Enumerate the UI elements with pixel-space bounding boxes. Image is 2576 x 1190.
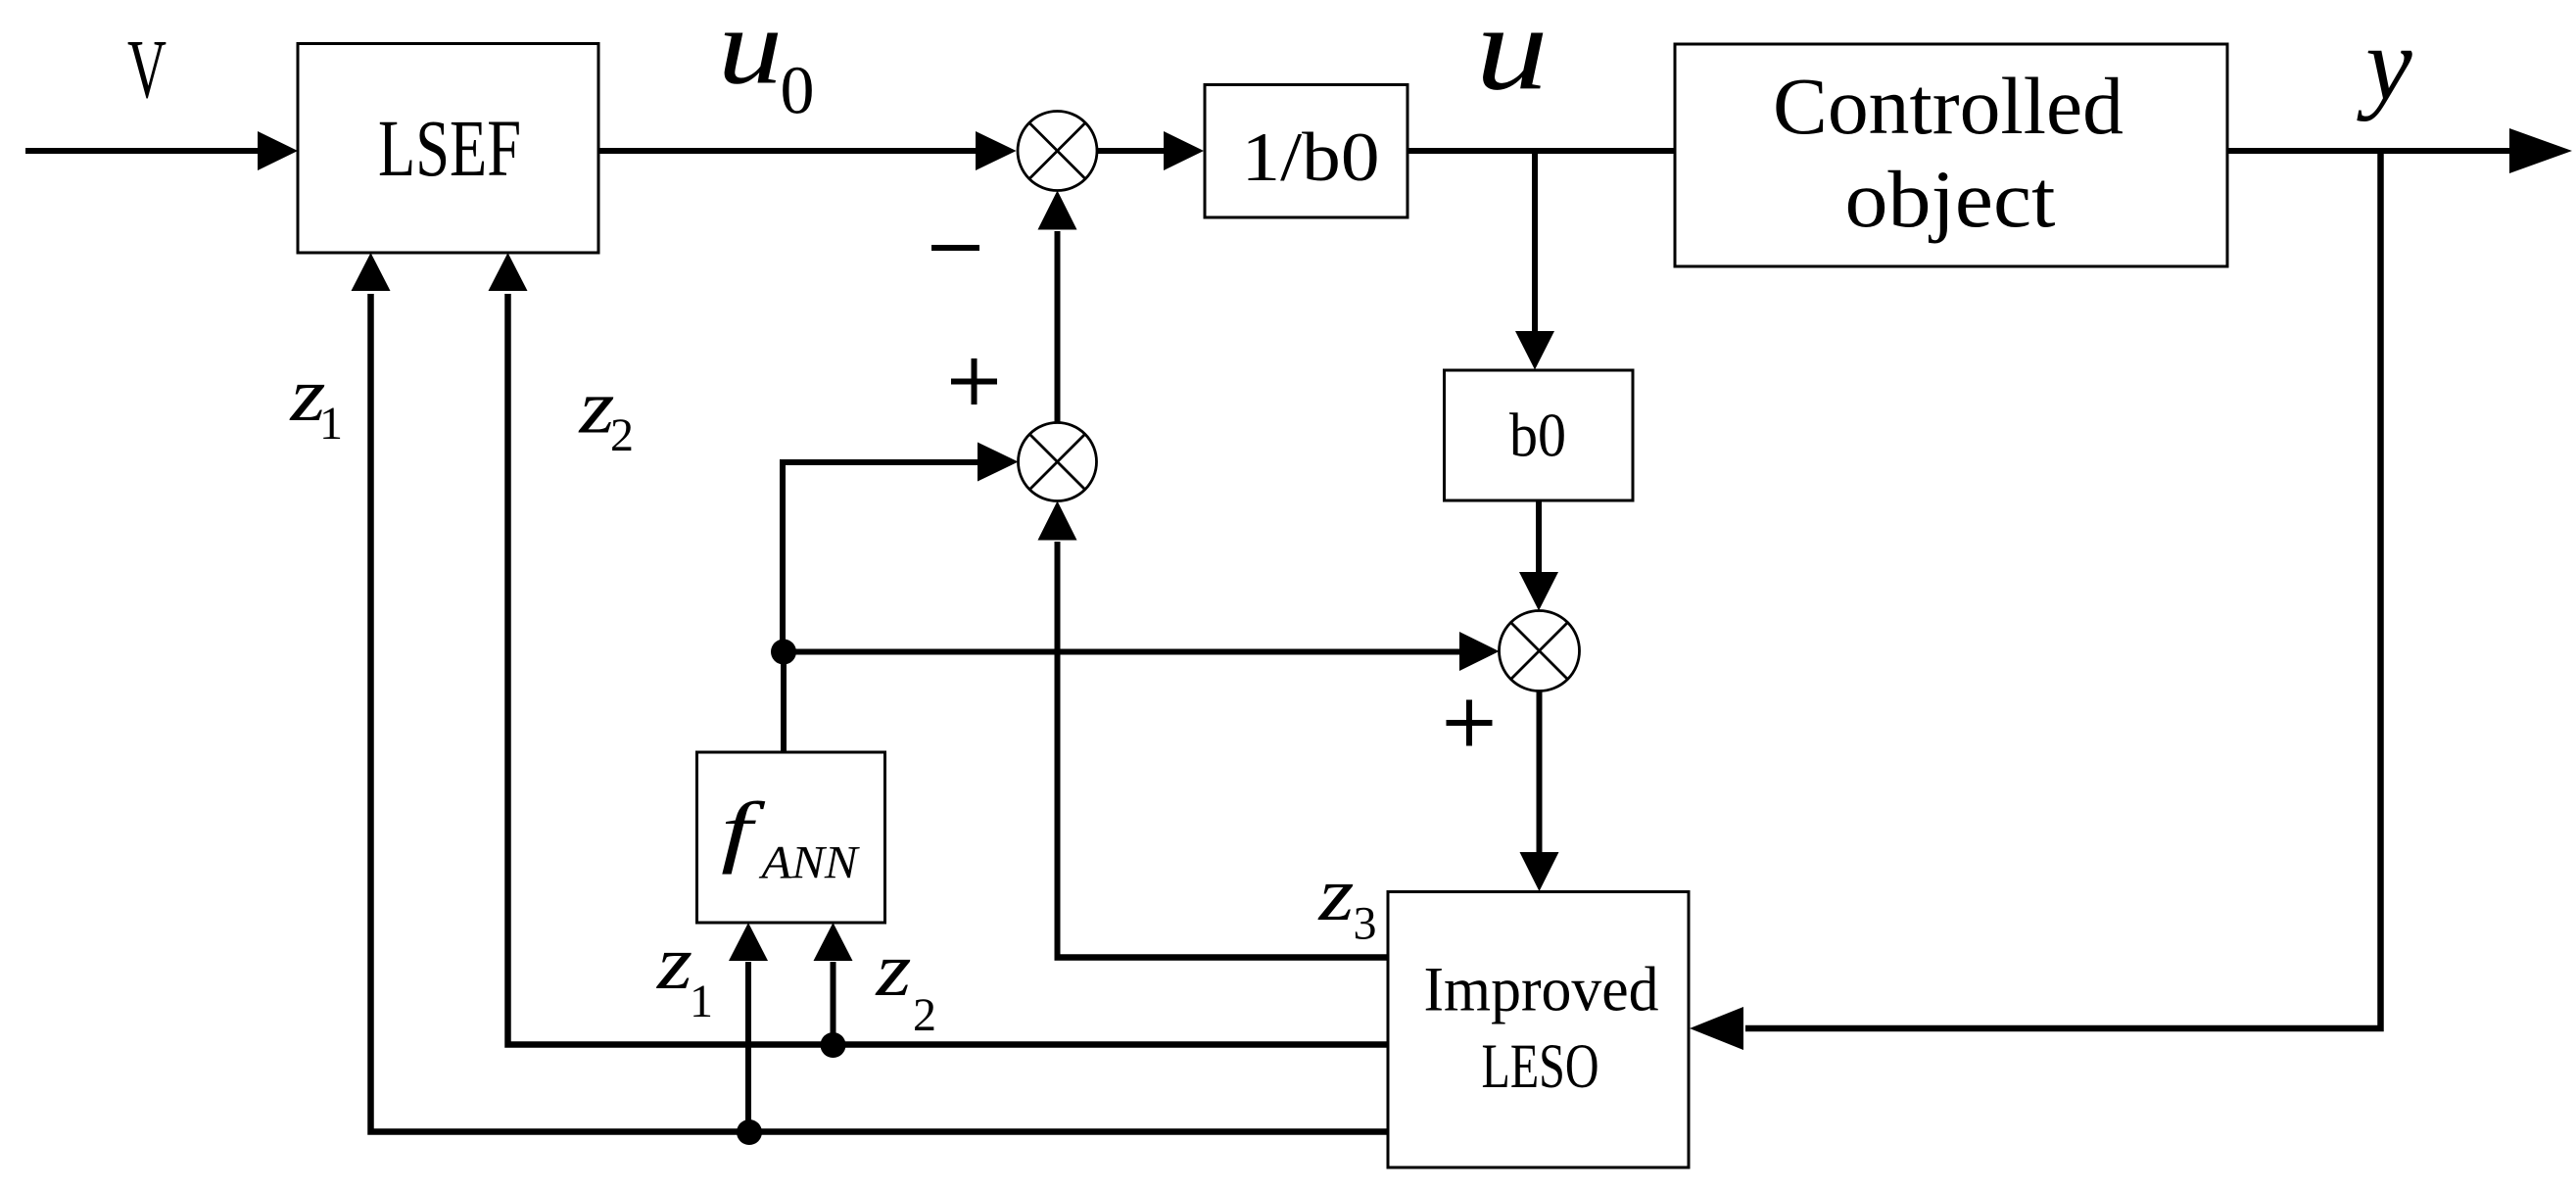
node arrowhead into sum1: [976, 131, 1017, 170]
wire sum2 to sum1: [1055, 231, 1061, 423]
wire fANN node to sum3: [784, 649, 1461, 655]
svg-text:1/b0: 1/b0: [1242, 119, 1380, 196]
node arrowhead into sum3 left: [1459, 632, 1500, 671]
node arrowhead z2 into LSEF bottom: [489, 253, 528, 291]
svg-text:3: 3: [1354, 898, 1377, 950]
wire elbow fANN output to sum2: [783, 462, 979, 654]
svg-text:LESO: LESO: [1482, 1031, 1599, 1102]
node sum2 circle: [1019, 423, 1097, 501]
label plus sign at sum2: [951, 379, 997, 385]
node junction dot z1 line: [737, 1119, 762, 1145]
wire u branch down to b0: [1532, 151, 1538, 333]
wire z3 vertical to sum2: [1055, 542, 1061, 958]
svg-text:z: z: [578, 364, 614, 450]
wire V input: [25, 148, 262, 154]
wire sum1 to 1/b0: [1097, 148, 1166, 154]
wire dot to fANN top: [781, 652, 787, 753]
node sum1 circle: [1018, 112, 1097, 191]
node y output arrowhead: [2509, 128, 2572, 173]
node sum3 circle: [1500, 611, 1580, 691]
node arrowhead into sum1 bottom: [1038, 191, 1077, 230]
label minus sign at sum1: [931, 245, 979, 251]
svg-text:y: y: [2357, 7, 2412, 122]
wire LSEF to sum1: [598, 148, 978, 154]
wire 1/b0 to Controlled object: [1407, 148, 1675, 154]
svg-text:Improved: Improved: [1424, 955, 1659, 1025]
wire z2 up to fANN: [831, 962, 836, 1045]
svg-text:1: 1: [690, 976, 713, 1027]
svg-text:u: u: [1476, 0, 1549, 115]
node arrowhead z1 into LSEF bottom: [352, 253, 391, 291]
node arrowhead z1 into fANN bottom: [729, 923, 768, 961]
wire z2 feedback from LESO to LSEF: [508, 294, 1389, 1045]
node arrowhead into LESO top: [1520, 852, 1559, 891]
svg-text:object: object: [1845, 154, 2056, 244]
svg-text:u: u: [718, 0, 783, 108]
node arrowhead into 1/b0: [1164, 131, 1204, 170]
svg-text:b0: b0: [1509, 401, 1566, 470]
wire Controlled object to y output: [2227, 148, 2513, 154]
node arrowhead into LESO right: [1690, 1007, 1743, 1050]
block b0 box: [1445, 370, 1634, 500]
block LSEF box: [298, 44, 598, 254]
wire sum3 to LESO: [1537, 691, 1543, 855]
node junction dot z2 line: [821, 1032, 846, 1058]
svg-text:0: 0: [781, 53, 815, 128]
wire z1 up to fANN: [745, 962, 751, 1133]
node arrowhead z2 into fANN bottom: [814, 923, 853, 961]
node arrowhead into b0 top: [1515, 331, 1554, 370]
wire z3 horizontal from LESO: [1055, 954, 1389, 961]
wire y feedback down: [1745, 148, 2381, 1028]
node V arrowhead into LSEF: [258, 131, 298, 170]
svg-text:2: 2: [913, 989, 936, 1041]
block Controlled object box: [1675, 44, 2227, 266]
svg-text:2: 2: [610, 409, 634, 461]
node arrowhead into sum2 left: [978, 443, 1019, 482]
node junction dot fANN output: [771, 640, 796, 665]
label plus sign at sum3: [1447, 720, 1493, 726]
svg-text:z: z: [875, 927, 911, 1012]
block fANN box: [697, 752, 885, 923]
node arrowhead into sum2 bottom: [1038, 501, 1077, 541]
node arrowhead into sum3 top: [1519, 572, 1558, 611]
svg-text:LSEF: LSEF: [378, 103, 521, 193]
svg-text:Controlled: Controlled: [1773, 61, 2123, 151]
block Improved LESO box: [1388, 892, 1689, 1168]
wire z1 feedback from LESO to LSEF: [371, 294, 1389, 1132]
svg-text:1: 1: [319, 398, 343, 450]
svg-text:V: V: [127, 22, 167, 116]
svg-text:z: z: [1317, 851, 1354, 936]
svg-text:z: z: [656, 920, 692, 1005]
block 1/b0 box: [1205, 85, 1407, 218]
svg-text:ANN: ANN: [758, 837, 860, 889]
wire b0 to sum3: [1536, 500, 1542, 574]
